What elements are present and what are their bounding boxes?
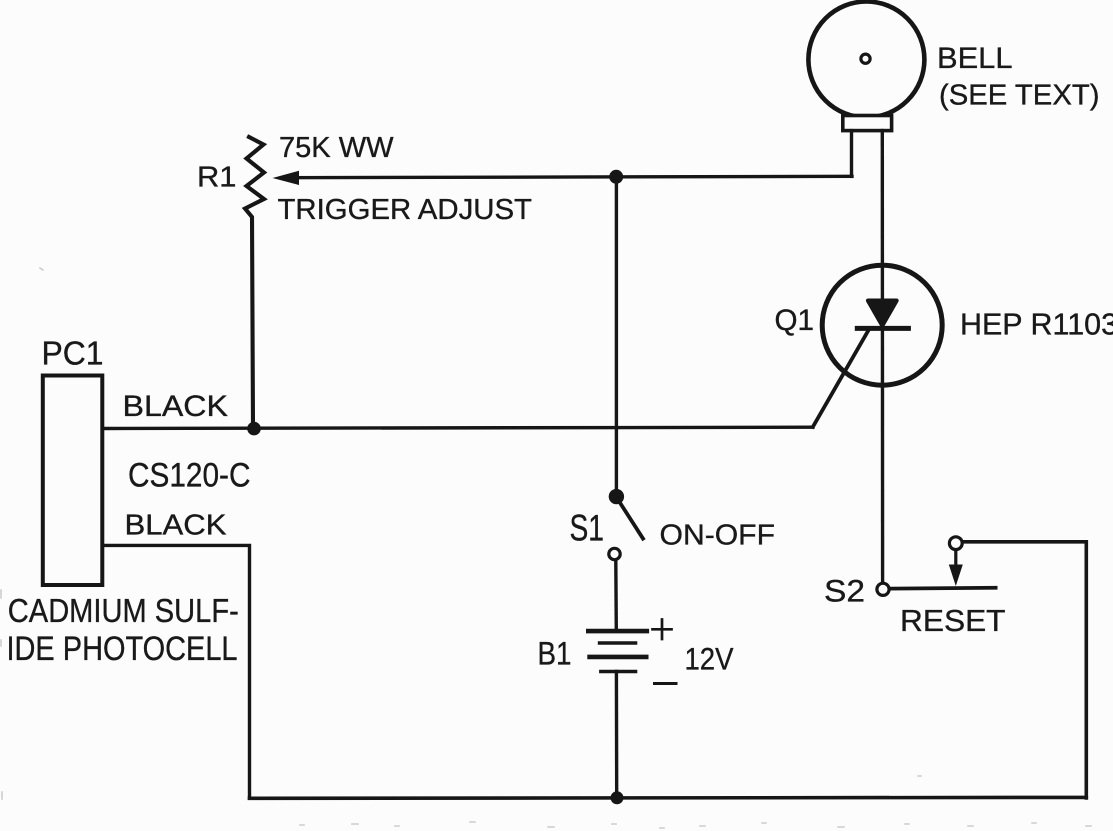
svg-text:S2: S2 (824, 573, 865, 609)
svg-text:75K WW: 75K WW (279, 132, 394, 164)
wire vertical to S1 (615, 177, 618, 489)
svg-text:ON-OFF: ON-OFF (660, 520, 776, 552)
switch S2 plunger contact (949, 537, 962, 550)
node junction dot left (247, 422, 261, 436)
SCR Q1 circle (822, 265, 942, 385)
svg-text:IDE PHOTOCELL: IDE PHOTOCELL (7, 630, 238, 668)
svg-text:RESET: RESET (900, 604, 1006, 638)
svg-text:B1: B1 (538, 635, 572, 671)
bell clapper dot (861, 54, 870, 63)
bell base (843, 116, 892, 131)
wire S1 to battery (614, 561, 618, 631)
switch S2 plunger arrowhead (949, 565, 963, 587)
switch S1 arm (620, 502, 644, 539)
svg-text:TRIGGER ADJUST: TRIGGER ADJUST (278, 194, 533, 226)
battery B1 plate short (600, 641, 636, 645)
node junction dot top (609, 170, 623, 184)
svg-text:PC1: PC1 (42, 335, 104, 372)
svg-text:S1: S1 (570, 508, 605, 549)
wire bell right lead anode (881, 131, 885, 582)
node junction dot bottom (611, 791, 624, 804)
svg-text:(SEE TEXT): (SEE TEXT) (939, 80, 1100, 112)
svg-text:CADMIUM SULF-: CADMIUM SULF- (8, 592, 239, 629)
wire bottom bus (250, 796, 1087, 800)
switch S2 contact bar (891, 586, 996, 591)
svg-text:BLACK: BLACK (123, 390, 229, 423)
battery plus sign (653, 620, 672, 640)
bell B (808, 2, 924, 118)
SCR Q1 cathode bar (857, 326, 908, 331)
switch S2 open contact left (877, 583, 889, 595)
battery B1 plate short bottom (601, 670, 636, 674)
switch S1 open contact (609, 548, 620, 559)
photocell PC1 (43, 376, 103, 586)
wire bell left lead (850, 131, 853, 177)
wire battery to bottom (615, 672, 619, 799)
svg-text:12V: 12V (685, 641, 734, 677)
svg-text:CS120-C: CS120-C (128, 457, 251, 495)
svg-text:Q1: Q1 (775, 304, 815, 337)
SCR Q1 gate lead (813, 329, 870, 427)
svg-text:R1: R1 (197, 162, 237, 194)
wire wiper horizontal (284, 176, 852, 177)
SCR Q1 triangle (868, 301, 897, 326)
battery minus sign (655, 682, 677, 685)
wire S2 right return (964, 542, 1087, 798)
wiper arrowhead (273, 171, 300, 185)
svg-text:BLACK: BLACK (125, 510, 228, 542)
svg-text:HEP R1103: HEP R1103 (960, 307, 1113, 341)
wire PC1 top to gate (103, 427, 813, 428)
wire PC1 bottom return (103, 545, 250, 798)
battery B1 plate long (590, 655, 647, 660)
resistor R1 (245, 137, 264, 429)
switch S1 (609, 489, 624, 504)
switch S2 plunger stem (954, 551, 957, 567)
svg-text:BELL: BELL (937, 42, 1013, 75)
battery B1 plate long top (588, 629, 647, 634)
